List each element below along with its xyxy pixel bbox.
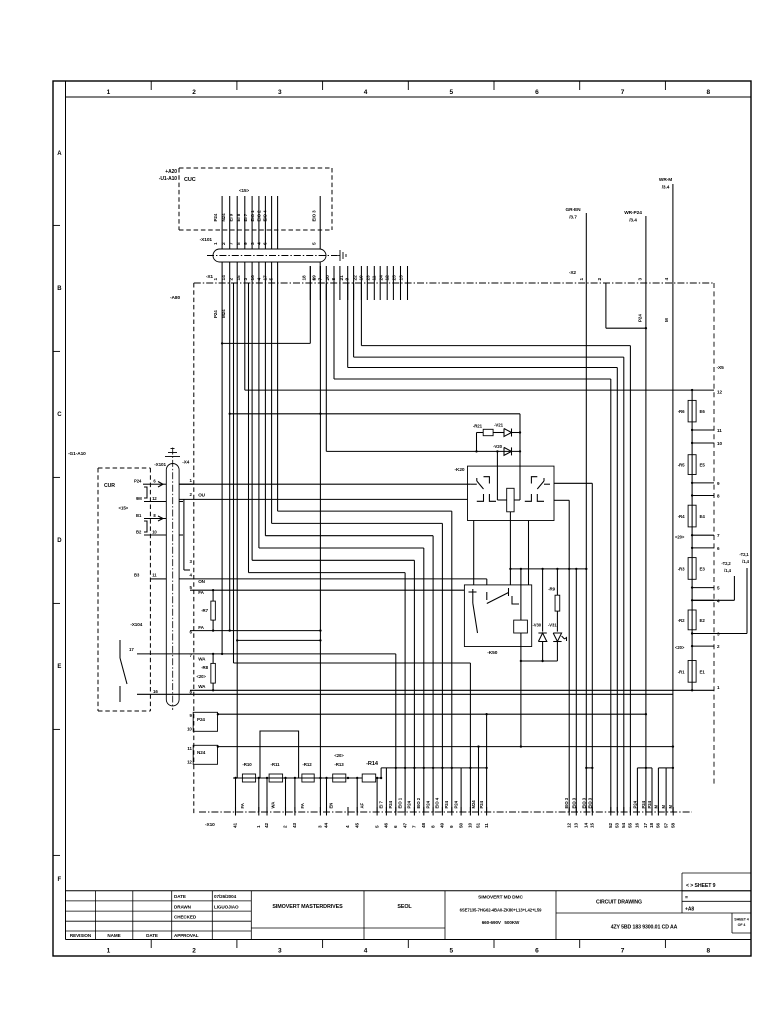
svg-text:M: M <box>668 805 673 809</box>
svg-text:SEOL: SEOL <box>397 904 412 910</box>
svg-text:2: 2 <box>597 278 603 281</box>
svg-text:54: 54 <box>621 822 626 828</box>
svg-text:5: 5 <box>311 242 317 245</box>
svg-text:E6: E6 <box>700 409 706 414</box>
svg-text:LIGUOJIAO: LIGUOJIAO <box>214 904 239 909</box>
wires to transformer taps -T2,2 and -T2,1 <box>692 599 734 601</box>
svg-text:-A80: -A80 <box>170 295 180 301</box>
relay -K50 switch contact <box>486 592 488 600</box>
relay -K50 bottom rail <box>521 660 558 662</box>
svg-text:49: 49 <box>440 822 445 828</box>
svg-text:4ZY 5BD 183 9300.01 CD AA: 4ZY 5BD 183 9300.01 CD AA <box>611 925 678 931</box>
svg-text:53: 53 <box>615 822 620 828</box>
svg-text:07/26/2004: 07/26/2004 <box>214 894 237 899</box>
svg-text:-X2: -X2 <box>569 270 577 276</box>
svg-text:M: M <box>661 805 666 809</box>
svg-text:16: 16 <box>250 275 256 281</box>
terminal -X5 stub wires and numbers <box>692 429 714 431</box>
wire P24 rail from box <box>218 713 646 715</box>
svg-text:11: 11 <box>717 428 722 433</box>
svg-text:-U1-A10: -U1-A10 <box>159 176 178 182</box>
svg-text:13: 13 <box>574 822 579 828</box>
snubber connecting wire <box>519 414 521 452</box>
svg-text:-V30: -V30 <box>532 623 541 628</box>
title block sheet reference box <box>682 872 751 874</box>
svg-text:<20>: <20> <box>675 645 685 650</box>
svg-text:50: 50 <box>458 822 463 828</box>
svg-text:GR-EN: GR-EN <box>566 207 582 213</box>
svg-text:/3.4: /3.4 <box>662 185 670 191</box>
relay -K50 coil <box>514 620 528 633</box>
svg-text:P24: P24 <box>453 800 458 808</box>
resistor chain junction dots <box>234 777 236 779</box>
svg-text:-R6: -R6 <box>678 409 685 414</box>
svg-text:-R11: -R11 <box>271 762 281 767</box>
wire -X1 pin15 to terminal -X5:12 <box>244 283 246 390</box>
svg-text:WR-M: WR-M <box>659 177 672 183</box>
svg-text:41: 41 <box>233 822 238 828</box>
board CUR dashed outline <box>98 467 150 469</box>
svg-text:-R5: -R5 <box>678 463 685 468</box>
svg-text:P24: P24 <box>479 800 484 808</box>
svg-text:8: 8 <box>706 89 710 96</box>
svg-text:6: 6 <box>535 89 539 96</box>
relay -K20 coil <box>507 488 514 512</box>
wire P24 link to -X1 pin18 <box>221 342 223 344</box>
svg-text:M24: M24 <box>221 309 226 318</box>
terminal risers -X10 16-18 P24 rail <box>637 767 652 769</box>
svg-text:E1: E1 <box>700 669 706 674</box>
resistor -R5 <box>688 455 696 475</box>
frame row ticks left <box>53 224 60 226</box>
staircase wires from -X1 group3 to lower right terminals <box>360 283 362 346</box>
wire chain output rail to P24 pins <box>380 768 382 778</box>
svg-text:EIO 4: EIO 4 <box>435 797 440 808</box>
svg-text:WA: WA <box>270 802 275 809</box>
riser -X10 pin 11 P24 <box>486 714 488 812</box>
svg-text:-K50: -K50 <box>487 650 497 656</box>
wire -X4 pin8 WA to -X5 terminal 1 <box>190 689 692 691</box>
svg-text:M24: M24 <box>471 800 476 809</box>
unit -A80 boundary bus (dash-dot) <box>194 282 714 284</box>
svg-text:-R7: -R7 <box>201 608 208 613</box>
svg-text:14: 14 <box>584 822 589 828</box>
door contact in CUR <box>119 640 121 658</box>
svg-text:B1: B1 <box>136 513 142 518</box>
drawing frame inner border lines <box>65 81 67 940</box>
svg-text:11: 11 <box>484 823 489 828</box>
svg-text:-V31: -V31 <box>548 623 557 628</box>
resistor -R2 <box>688 610 696 630</box>
svg-text:17: 17 <box>129 647 134 652</box>
capsule shield symbol top <box>165 456 180 458</box>
cable shield symbol right of capsule <box>337 255 340 257</box>
CUC pin wires down to connector -X101 <box>221 196 223 249</box>
relay -K20 right contact <box>544 483 550 485</box>
svg-text:P24: P24 <box>213 310 218 318</box>
resistor chain rail <box>233 777 362 779</box>
svg-text:24: 24 <box>378 275 384 281</box>
svg-text:AF: AF <box>360 802 365 808</box>
resistor -R1 <box>688 661 696 683</box>
svg-text:-X104: -X104 <box>130 622 142 627</box>
svg-text:E2: E2 <box>700 618 706 623</box>
svg-text:APPROVAL: APPROVAL <box>174 933 199 938</box>
svg-text:48: 48 <box>421 822 426 828</box>
relay -K20 output wires down <box>473 521 475 585</box>
svg-text:P24: P24 <box>388 800 393 808</box>
svg-text:660-690V 500KW: 660-690V 500KW <box>482 920 520 925</box>
svg-text:B3: B3 <box>134 573 140 578</box>
svg-text:<20>: <20> <box>675 535 685 540</box>
svg-text:E5: E5 <box>700 463 706 468</box>
svg-text:-G1-A10: -G1-A10 <box>68 451 86 457</box>
relay -K20 input wires from -X4 <box>179 483 471 485</box>
svg-text:-R8: -R8 <box>201 665 208 670</box>
svg-text:EI 7: EI 7 <box>243 213 248 221</box>
frame column ticks top <box>150 81 152 90</box>
svg-text:REVISION: REVISION <box>70 933 92 938</box>
svg-text:-V20: -V20 <box>493 444 503 449</box>
wire P24 from -X1 pin1 down <box>221 283 223 654</box>
svg-text:13: 13 <box>399 275 405 281</box>
svg-text:<15>: <15> <box>239 188 250 193</box>
svg-text:M: M <box>664 318 669 322</box>
svg-text:9M: 9M <box>136 496 142 501</box>
svg-text:EIO 2: EIO 2 <box>416 797 421 808</box>
relay -K20 left contact <box>471 483 477 485</box>
svg-text:-X4: -X4 <box>182 460 189 465</box>
svg-text:ON: ON <box>198 579 205 584</box>
svg-text:<15>: <15> <box>119 506 129 511</box>
svg-text:1: 1 <box>213 242 219 245</box>
relay -K20 right contact upper wire to -X10 pin 15 <box>554 482 592 484</box>
svg-text:P24: P24 <box>407 800 412 808</box>
svg-text:7: 7 <box>621 89 625 96</box>
svg-text:CUC: CUC <box>184 177 196 183</box>
svg-text:-R3: -R3 <box>678 566 685 571</box>
svg-text:1: 1 <box>107 948 111 955</box>
svg-text:16: 16 <box>153 689 158 694</box>
svg-text:46: 46 <box>384 822 389 828</box>
svg-text:=: = <box>685 895 688 901</box>
terminal risers -X10 56-58 M rail <box>658 767 673 769</box>
svg-text:N24: N24 <box>221 213 226 222</box>
svg-text:2: 2 <box>192 948 196 955</box>
relay -K20 right contact lower wire to coil rail and -X10 pin 12 <box>554 499 569 501</box>
svg-text:10: 10 <box>717 441 722 446</box>
svg-text:<20>: <20> <box>197 674 207 679</box>
svg-text:10: 10 <box>468 822 473 828</box>
svg-text:/3.4: /3.4 <box>629 218 637 224</box>
controller board CUC dashed outline -U1-A10 <box>179 167 332 169</box>
wire N24 rail from box <box>218 746 673 748</box>
bridge wire over R11-R12 <box>260 731 299 778</box>
svg-text:EI 8: EI 8 <box>236 213 241 221</box>
svg-text:12: 12 <box>152 496 157 501</box>
svg-text:11: 11 <box>152 573 157 578</box>
svg-text:EI 9: EI 9 <box>228 213 233 221</box>
svg-text:-R2: -R2 <box>678 618 685 623</box>
svg-text:DRAWN: DRAWN <box>174 904 192 909</box>
svg-text:2: 2 <box>192 89 196 96</box>
svg-text:-X5: -X5 <box>717 365 725 371</box>
svg-text:52: 52 <box>608 822 613 828</box>
svg-text:NAME: NAME <box>107 933 120 938</box>
svg-text:42: 42 <box>264 822 269 828</box>
svg-text:/3.7: /3.7 <box>569 215 577 221</box>
drawing frame outer border <box>53 81 751 956</box>
svg-text:-R14: -R14 <box>366 761 379 767</box>
svg-text:3: 3 <box>278 89 282 96</box>
svg-text:N24: N24 <box>197 750 206 755</box>
svg-text:F: F <box>58 877 62 883</box>
svg-text:18: 18 <box>301 275 307 281</box>
risers from chain to -X10 terminals <box>235 778 237 812</box>
svg-text:-R12: -R12 <box>302 762 312 767</box>
svg-text:EIO 1: EIO 1 <box>397 797 402 808</box>
svg-text:15: 15 <box>590 822 595 828</box>
svg-text:OF 4: OF 4 <box>738 923 746 927</box>
svg-text:EIO 3: EIO 3 <box>581 797 586 808</box>
svg-text:EI 7: EI 7 <box>379 801 384 809</box>
svg-text:5: 5 <box>449 948 453 955</box>
svg-text:E: E <box>57 664 61 670</box>
riser -X10 pin 51 M24 <box>478 747 480 812</box>
svg-text:SHEET 4: SHEET 4 <box>734 918 749 922</box>
svg-text:EIO 3: EIO 3 <box>312 210 317 222</box>
svg-text:47: 47 <box>402 822 407 828</box>
svg-text:18: 18 <box>649 822 654 828</box>
frame column ticks bottom <box>150 940 152 949</box>
svg-text:P24: P24 <box>647 800 652 808</box>
svg-text:4: 4 <box>364 89 368 96</box>
svg-text:-T2,1: -T2,1 <box>739 552 749 557</box>
svg-text:43: 43 <box>292 822 297 828</box>
svg-text:12: 12 <box>566 822 571 828</box>
cable capsule between -X101 and -X1 <box>213 249 326 262</box>
unit -A80 left dashed boundary -X4 <box>193 283 195 815</box>
svg-text:3: 3 <box>278 948 282 955</box>
relay -K50 outline <box>464 585 531 647</box>
svg-text:10: 10 <box>187 727 192 732</box>
svg-text:-R10: -R10 <box>242 762 252 767</box>
svg-text:+A20: +A20 <box>165 169 177 175</box>
wire V20 rail riser -X1 pin7 <box>325 283 327 451</box>
svg-text:-R21: -R21 <box>473 424 483 429</box>
svg-text:12: 12 <box>187 760 192 765</box>
svg-text:EIO 3: EIO 3 <box>571 797 576 808</box>
svg-text:-X1: -X1 <box>206 274 214 280</box>
terminal strip -X10 bus (dash-dot) <box>199 811 692 813</box>
svg-text:5: 5 <box>449 89 453 96</box>
wire M24 rail to snubber -R21 and -X1 pin6 <box>229 413 231 415</box>
svg-text:17: 17 <box>643 822 648 828</box>
svg-text:10: 10 <box>152 530 157 535</box>
svg-text:51: 51 <box>476 822 481 828</box>
svg-text:DATE: DATE <box>146 933 158 938</box>
resistor chain vertical rail <box>691 390 693 690</box>
svg-text:SIMOVERT MD DMC: SIMOVERT MD DMC <box>478 895 523 901</box>
svg-text:<20>: <20> <box>334 753 344 758</box>
svg-text:P24: P24 <box>444 800 449 808</box>
svg-text:/1,4: /1,4 <box>742 559 749 564</box>
svg-text:58: 58 <box>670 822 675 828</box>
svg-text:EIO 3: EIO 3 <box>587 797 592 808</box>
svg-text:12: 12 <box>717 390 722 395</box>
svg-text:CHECKED: CHECKED <box>174 915 197 920</box>
svg-text:/1,4: /1,4 <box>724 568 731 573</box>
vertical cable capsule <box>166 464 179 706</box>
resistor -R6 <box>688 400 696 422</box>
svg-text:P24: P24 <box>632 800 637 808</box>
svg-text:-X101: -X101 <box>200 237 213 243</box>
svg-text:4: 4 <box>257 278 263 281</box>
svg-text:WA: WA <box>198 684 206 689</box>
svg-text:19: 19 <box>312 275 318 281</box>
wire from coil rail down to -X10 pin 13 <box>575 569 577 812</box>
svg-text:WR-P24: WR-P24 <box>624 210 642 216</box>
wire -X2 pin2 jog to WR-P24 <box>605 283 607 328</box>
svg-text:6: 6 <box>535 948 539 955</box>
connector -X1 stub wires group 2-3 <box>309 266 311 300</box>
svg-text:SIMOVERT MASTERDRIVES: SIMOVERT MASTERDRIVES <box>272 904 343 910</box>
svg-text:-X10: -X10 <box>205 822 215 828</box>
resistor -R4 <box>688 505 696 527</box>
svg-text:-R4: -R4 <box>678 514 685 519</box>
svg-text:EIO 3: EIO 3 <box>564 797 569 808</box>
svg-text:FA: FA <box>300 803 305 808</box>
wire -X1 pin19 down to -R7 return and -X10 pin3 <box>319 283 321 812</box>
svg-text:1: 1 <box>579 278 585 281</box>
svg-text:4: 4 <box>664 278 670 281</box>
svg-text:P24: P24 <box>213 213 218 221</box>
svg-text:6SE7135-7HG62-4BA0-ZK80+L13+L4: 6SE7135-7HG62-4BA0-ZK80+L13+L42+L59 <box>460 908 542 913</box>
svg-text:1: 1 <box>107 89 111 96</box>
svg-text:1: 1 <box>213 278 219 281</box>
svg-text:57: 57 <box>663 822 668 828</box>
svg-text:+A8: +A8 <box>685 907 694 913</box>
svg-text:45: 45 <box>354 822 359 828</box>
svg-text:< > SHEET 9: < > SHEET 9 <box>686 883 716 889</box>
connector -X1 wires group 1 from capsule to bus <box>221 262 223 283</box>
svg-text:M: M <box>653 805 658 809</box>
svg-text:-K20: -K20 <box>454 467 464 473</box>
svg-text:P24: P24 <box>197 717 205 722</box>
svg-text:FA: FA <box>198 625 204 630</box>
svg-text:-V21: -V21 <box>494 423 504 428</box>
svg-text:9: 9 <box>243 242 249 245</box>
svg-text:CUR: CUR <box>104 483 115 489</box>
wire M24 from -X1 pin14 down <box>229 283 231 631</box>
svg-text:7: 7 <box>228 242 234 245</box>
svg-text:DATE: DATE <box>174 894 186 899</box>
svg-text:B2: B2 <box>136 530 142 535</box>
wire WR-M down to M rail <box>672 283 674 812</box>
svg-text:FA: FA <box>198 590 204 595</box>
svg-text:-R13: -R13 <box>334 762 344 767</box>
svg-text:8: 8 <box>236 242 242 245</box>
wire GR-EN down through snubber rail to -X10 pin 14 <box>585 283 587 812</box>
svg-text:CIRCUIT DRAWING: CIRCUIT DRAWING <box>596 900 642 906</box>
snubber rail over -K50 coil <box>510 568 586 570</box>
svg-text:P24: P24 <box>638 314 643 322</box>
svg-text:WA: WA <box>198 657 206 662</box>
svg-text:23: 23 <box>365 275 371 281</box>
title block grid <box>66 890 752 892</box>
svg-text:E4: E4 <box>700 514 706 519</box>
risers from P24 rail to -X10 terminals <box>385 768 387 812</box>
wire -X1 pin15 down to resistor chain <box>236 283 238 778</box>
svg-text:16: 16 <box>635 822 640 828</box>
svg-text:6: 6 <box>263 242 269 245</box>
svg-text:P24: P24 <box>134 479 142 484</box>
svg-text:3: 3 <box>250 242 256 245</box>
svg-text:4: 4 <box>364 948 368 955</box>
svg-text:-T2,2: -T2,2 <box>721 561 731 566</box>
svg-text:EN: EN <box>329 803 334 809</box>
relay -K50 left contact <box>472 589 474 603</box>
svg-text:3: 3 <box>243 278 249 281</box>
svg-text:P24: P24 <box>641 800 646 808</box>
svg-text:7: 7 <box>621 948 625 955</box>
svg-text:25: 25 <box>392 275 398 281</box>
svg-text:-R1: -R1 <box>678 669 685 674</box>
svg-text:P24: P24 <box>425 800 430 808</box>
resistor -R3 <box>688 558 696 580</box>
terminal strip -X5 dashed rail <box>713 283 715 785</box>
svg-text:4: 4 <box>257 242 263 245</box>
svg-text:OU: OU <box>198 493 205 498</box>
terminal riser dots -X10 14-15 <box>586 767 592 769</box>
svg-text:56: 56 <box>656 822 661 828</box>
svg-text:44: 44 <box>324 822 329 828</box>
svg-text:2: 2 <box>221 242 227 245</box>
staircase wires from -X1 group1 to -X10 outputs <box>248 283 250 573</box>
svg-text:55: 55 <box>628 822 633 828</box>
svg-text:E3: E3 <box>700 566 706 571</box>
wire WR-P24 down to P24 rail <box>645 283 647 812</box>
svg-text:11: 11 <box>187 746 192 751</box>
svg-text:8: 8 <box>706 948 710 955</box>
svg-text:FA: FA <box>240 803 245 808</box>
svg-text:-R9: -R9 <box>548 587 555 592</box>
terminal strip -X10 stub ticks <box>235 807 237 816</box>
svg-text:3: 3 <box>638 278 644 281</box>
svg-text:-X101: -X101 <box>154 462 166 467</box>
wire -X1 pin2 down to -X10 pin 10 rail <box>233 283 235 663</box>
